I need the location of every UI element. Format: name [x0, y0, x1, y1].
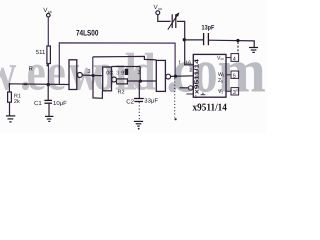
svg-text:cc: cc	[48, 9, 52, 14]
node thickening on rail	[23, 83, 27, 85]
svg-text:1: 1	[221, 91, 223, 95]
ground under C1	[45, 116, 53, 121]
NAND gate IC-3 box	[156, 60, 165, 91]
svg-text:13pF: 13pF	[202, 24, 215, 31]
svg-text:511: 511	[36, 49, 46, 56]
svg-text:C1: C1	[34, 100, 42, 107]
capacitor C2	[138, 81, 140, 98]
wire cap to ground	[209, 39, 255, 42]
svg-text:m: m	[218, 38, 266, 106]
svg-text:x9511/14: x9511/14	[194, 58, 201, 94]
dotted line below node	[174, 78, 176, 117]
wire R2 to gate3	[127, 80, 156, 82]
pin box 3	[231, 88, 239, 95]
ground under C2	[138, 128, 140, 130]
svg-text:e: e	[47, 44, 66, 102]
junction C1 node	[47, 83, 50, 86]
input rail	[9, 83, 69, 86]
resistor 511 (bias)	[47, 46, 51, 64]
svg-text:0C: 0C	[106, 70, 113, 76]
svg-text:5: 5	[233, 73, 236, 79]
NAND gate IC-2 box	[103, 67, 112, 91]
svg-text:3: 3	[116, 70, 119, 76]
NAND gate IC-1 box	[69, 60, 77, 90]
rotated internal label	[194, 58, 201, 94]
wire trimmer to drop	[177, 21, 193, 64]
pin box 4	[231, 54, 239, 62]
label C1 10uF	[34, 100, 67, 107]
wire to cap 13pF	[185, 39, 204, 41]
label C2 33uF	[126, 97, 158, 105]
label 13pF	[202, 24, 215, 31]
wire gate3 out to IC	[171, 75, 194, 78]
wire gate1 out	[82, 74, 103, 77]
Vcc terminal left	[47, 13, 51, 17]
gate2 inner label	[106, 70, 124, 76]
wire node to crystal-feed riser	[92, 57, 94, 76]
label R1 2k	[14, 93, 21, 105]
node gate1 out	[91, 74, 94, 77]
trimmer capacitor	[172, 14, 176, 28]
resistor R1	[8, 84, 10, 92]
wire Vcc right	[158, 15, 171, 22]
Vcc terminal right	[156, 11, 160, 15]
svg-text:cc: cc	[221, 57, 225, 61]
ground under R1	[6, 116, 15, 122]
label 74LS00	[76, 29, 99, 38]
svg-text:16: 16	[185, 60, 191, 66]
svg-text:R2: R2	[118, 89, 125, 95]
corner R1	[9, 83, 11, 85]
feedback rail top	[59, 43, 175, 85]
svg-text:cc: cc	[158, 6, 162, 11]
node Vcc bus	[183, 38, 186, 41]
svg-text:C2: C2	[126, 98, 134, 105]
svg-text:74LS00: 74LS00	[76, 29, 99, 38]
svg-text:3: 3	[233, 90, 236, 96]
Vcc label right	[154, 4, 163, 11]
bubble gate1	[77, 73, 82, 78]
node blob	[46, 64, 48, 66]
Vcc label left	[43, 7, 52, 14]
capacitor 13pF	[204, 33, 209, 45]
svg-text:9: 9	[121, 70, 124, 76]
pin box 5	[231, 71, 239, 78]
bubble gate3	[166, 74, 171, 79]
wire Vcc to resistor	[47, 17, 49, 46]
dashed line to pin 4	[237, 42, 239, 54]
svg-text:10μF: 10μF	[53, 100, 67, 107]
svg-text:b: b	[221, 80, 223, 84]
svg-text:33μF: 33μF	[144, 97, 158, 104]
svg-text:x9511/14: x9511/14	[193, 102, 228, 113]
IC name label	[193, 102, 228, 113]
svg-text:3: 3	[87, 69, 90, 75]
svg-text:2k: 2k	[14, 99, 20, 105]
IC right internal labels	[217, 56, 225, 95]
svg-text:d: d	[132, 44, 156, 102]
IC x9511/14 box	[193, 54, 226, 97]
wire bubble2 to R2	[116, 79, 119, 81]
left pin wire with circle	[180, 87, 189, 89]
wire drop to node	[139, 67, 141, 82]
bubble gate2	[112, 77, 117, 82]
wire feedback loop down	[93, 76, 102, 99]
right pin stubs and number boxes	[226, 58, 231, 92]
wire feedback upper bypass	[93, 56, 157, 60]
svg-text:4: 4	[233, 56, 236, 62]
watermark	[0, 38, 266, 106]
wire resistor to rail	[47, 64, 49, 85]
svg-text:R: R	[29, 65, 34, 72]
svg-text:1: 1	[223, 74, 225, 78]
tiny gnd mark inside IC	[201, 93, 206, 95]
ground right	[253, 41, 255, 47]
node dashed	[236, 39, 239, 42]
node feedback pickup	[174, 75, 177, 78]
capacitor C1	[47, 85, 49, 100]
resistor R2	[117, 79, 128, 84]
wire gate2 top feedback	[112, 66, 141, 68]
node after R2	[139, 80, 142, 83]
